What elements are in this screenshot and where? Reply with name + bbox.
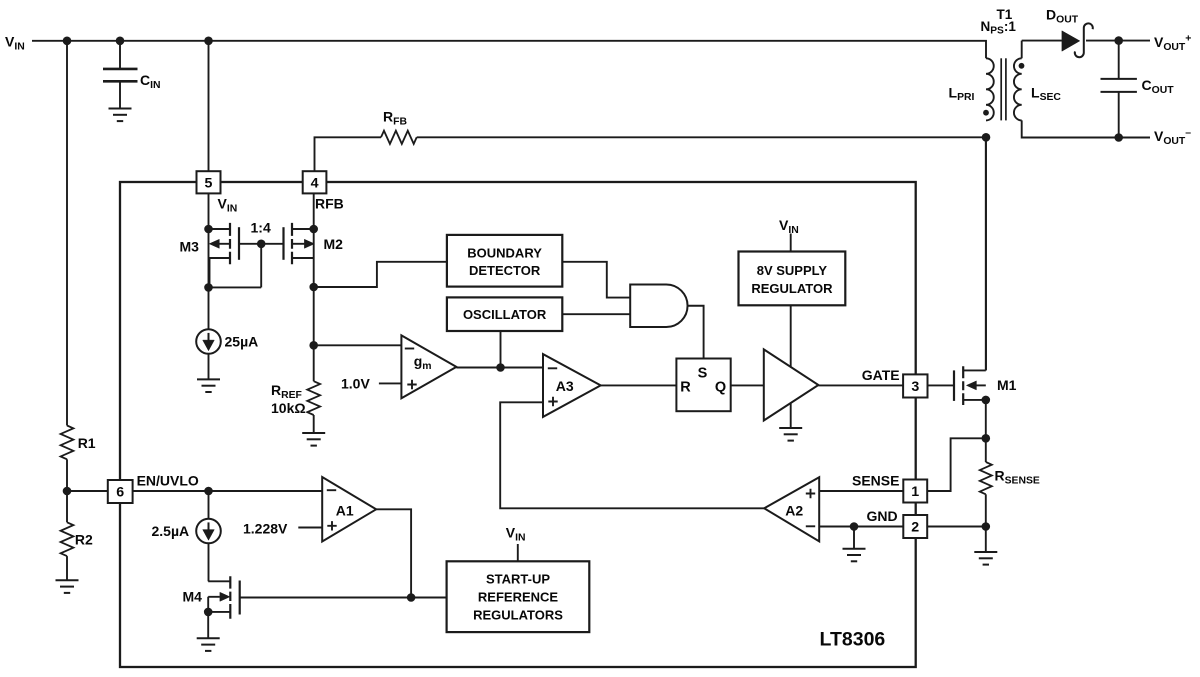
svg-text:5: 5 [205, 175, 213, 191]
svg-text:R: R [680, 379, 691, 395]
svg-text:M3: M3 [180, 239, 200, 255]
svg-text:DETECTOR: DETECTOR [469, 263, 541, 278]
svg-text:SENSE: SENSE [852, 473, 899, 489]
svg-text:6: 6 [116, 485, 124, 501]
svg-text:A1: A1 [336, 502, 354, 518]
svg-text:1.0V: 1.0V [341, 376, 370, 392]
svg-text:R2: R2 [75, 532, 93, 548]
svg-text:1: 1 [911, 484, 919, 500]
svg-text:REGULATOR: REGULATOR [751, 281, 833, 296]
svg-text:25µA: 25µA [225, 333, 259, 349]
svg-text:2: 2 [911, 520, 919, 536]
svg-text:2.5µA: 2.5µA [152, 523, 190, 539]
svg-text:M4: M4 [183, 589, 203, 605]
svg-text:OSCILLATOR: OSCILLATOR [463, 307, 547, 322]
svg-text:REFERENCE: REFERENCE [478, 589, 559, 604]
svg-text:1:4: 1:4 [251, 219, 271, 235]
svg-text:REGULATORS: REGULATORS [473, 607, 563, 622]
svg-text:1.228V: 1.228V [243, 521, 288, 537]
svg-text:START-UP: START-UP [486, 572, 550, 587]
svg-text:8V SUPPLY: 8V SUPPLY [757, 263, 828, 278]
svg-text:GATE: GATE [862, 367, 900, 383]
svg-text:4: 4 [311, 175, 319, 191]
svg-text:10kΩ: 10kΩ [271, 400, 306, 416]
svg-text:EN/UVLO: EN/UVLO [137, 473, 199, 489]
svg-text:Q: Q [715, 379, 726, 395]
svg-text:RFB: RFB [315, 196, 344, 212]
svg-text:M1: M1 [997, 377, 1017, 393]
svg-text:BOUNDARY: BOUNDARY [467, 245, 542, 260]
svg-text:S: S [698, 366, 708, 382]
svg-text:LT8306: LT8306 [820, 629, 886, 651]
svg-text:A3: A3 [556, 378, 574, 394]
svg-text:GND: GND [867, 508, 898, 524]
svg-text:A2: A2 [785, 502, 803, 518]
svg-text:M2: M2 [324, 236, 344, 252]
svg-text:R1: R1 [78, 435, 96, 451]
svg-text:3: 3 [911, 379, 919, 395]
